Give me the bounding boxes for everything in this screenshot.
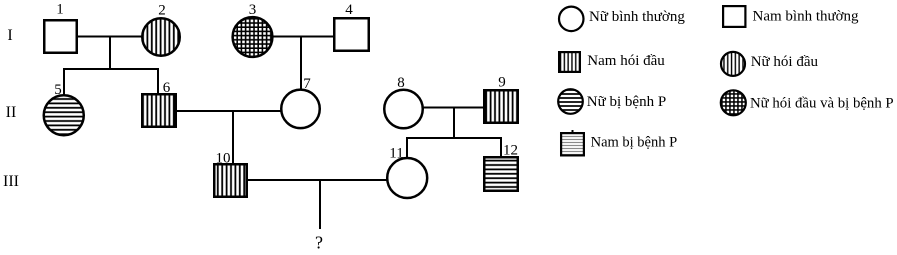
svg-text:4: 4 xyxy=(345,2,353,18)
individual 7 normal female circle xyxy=(281,90,320,128)
legend circle normal female xyxy=(559,7,584,32)
legend square bald male xyxy=(559,52,580,72)
svg-text:Nam bình thường: Nam bình thường xyxy=(753,9,860,25)
wire marriage 1-2 xyxy=(77,36,143,38)
svg-text:?: ? xyxy=(315,233,323,251)
wire sibling line gen III right xyxy=(406,137,502,139)
svg-text:7: 7 xyxy=(303,76,311,92)
svg-text:8: 8 xyxy=(397,75,405,91)
svg-text:1: 1 xyxy=(56,2,64,18)
wire sibling line gen II left xyxy=(63,68,159,70)
wire marriage 3-4 xyxy=(271,36,335,38)
legend circle bald female P xyxy=(721,90,746,115)
svg-text:III: III xyxy=(3,173,19,190)
legend circle female P xyxy=(558,89,583,114)
wire marriage 8-9 xyxy=(421,107,485,109)
individual 3 bald+P female circle crosshatch xyxy=(233,17,273,57)
legend square male P xyxy=(561,133,584,155)
individual 11 normal female circle xyxy=(387,158,427,198)
individual 12 male P square horizontal stripes xyxy=(484,157,518,191)
svg-text:5: 5 xyxy=(54,82,62,98)
svg-text:Nữ hói đầu: Nữ hói đầu xyxy=(751,54,819,70)
individual 4 normal male square xyxy=(334,18,369,51)
wire drop from couple 1-2 xyxy=(109,37,111,70)
wire drop to 7 xyxy=(300,37,302,92)
svg-text:12: 12 xyxy=(503,143,518,159)
individual 10 bald male square vertical stripes xyxy=(214,164,247,197)
svg-text:6: 6 xyxy=(163,80,171,96)
svg-text:I: I xyxy=(7,27,12,44)
svg-text:2: 2 xyxy=(158,3,166,19)
wire drop to 10 xyxy=(232,111,234,165)
svg-text:10: 10 xyxy=(216,151,231,167)
svg-text:Nam bị bệnh P: Nam bị bệnh P xyxy=(591,134,678,150)
legend circle bald female xyxy=(721,52,745,76)
individual 9 bald male square vertical stripes xyxy=(484,90,518,123)
wire drop to 6 xyxy=(157,68,159,95)
wire drop from couple 8-9 xyxy=(453,108,455,139)
wire marriage 6-7 xyxy=(176,110,282,112)
individual 8 normal female circle xyxy=(384,90,423,129)
svg-text:Nữ bình thường: Nữ bình thường xyxy=(589,9,685,25)
svg-text:Nam hói đầu: Nam hói đầu xyxy=(587,53,665,69)
wire marriage 10-11 xyxy=(246,179,388,181)
svg-text:3: 3 xyxy=(249,2,257,18)
individual 2 bald female circle vertical stripes xyxy=(142,18,180,56)
legend square normal male xyxy=(723,6,745,27)
wire drop to 5 xyxy=(63,68,65,96)
svg-text:9: 9 xyxy=(498,75,506,91)
legend square male P top tick xyxy=(572,130,574,133)
individual 6 bald male square vertical stripes xyxy=(142,94,176,127)
svg-text:11: 11 xyxy=(389,146,403,162)
wire drop to ? xyxy=(319,180,321,229)
svg-text:Nữ hói đầu và bị bệnh P: Nữ hói đầu và bị bệnh P xyxy=(750,95,894,111)
svg-text:II: II xyxy=(6,104,17,121)
individual 5 female P circle horizontal stripes xyxy=(44,95,84,135)
wire drop to 11 xyxy=(406,137,408,159)
wire drop to 12 xyxy=(500,137,502,158)
svg-text:Nữ bị bệnh P: Nữ bị bệnh P xyxy=(587,94,666,110)
individual 1 normal male square xyxy=(44,20,77,53)
